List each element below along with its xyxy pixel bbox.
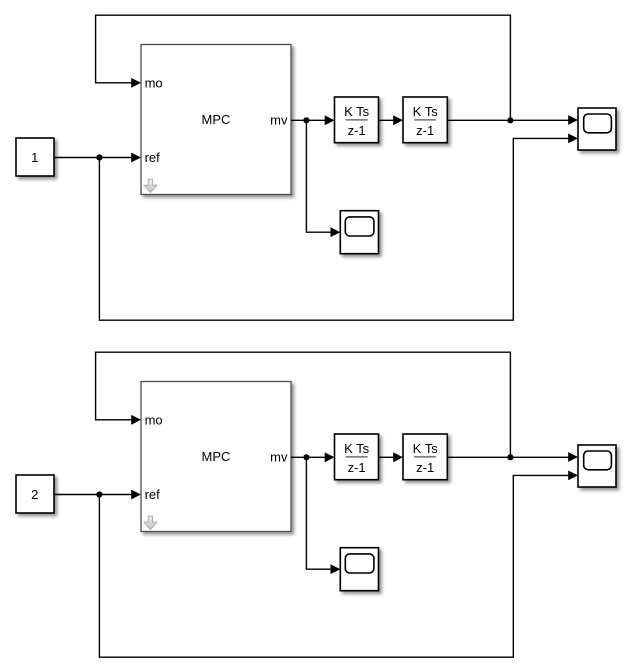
arrowhead into scope2 upper port [568,452,578,462]
wire: ref feedback (down, right, up into scope1 lower port) [99,138,568,320]
svg-text:mo: mo [145,75,163,90]
MPC controller block MPC2 [141,382,291,532]
svg-text:MPC: MPC [202,449,231,464]
MPC controller block MPC1 [141,45,291,195]
svg-text:z-1: z-1 [348,123,366,138]
discrete integrator block 1a (K Ts / z-1) [335,97,379,143]
wire: mo feedback (from output junction up, left, down into mo port) [96,15,511,121]
arrowhead into integrator K Ts/z-1 1a [325,115,335,125]
arrowhead into ref port of MPC1 [131,153,141,163]
arrowhead into mo port of MPC2 [131,415,141,425]
arrowhead into mo port of MPC1 [131,78,141,88]
wire: ref feedback (down, right, up into scope2 lower port) [99,475,568,657]
arrowhead into integrator 2b [393,452,403,462]
wire: integrator 1a to integrator 1b [379,119,395,121]
discrete integrator block 2a (K Ts / z-1) [335,434,379,480]
small scope2 screen icon [345,554,374,573]
output scope block 2o [578,445,616,487]
fraction bar of integrator 1b [414,119,436,121]
svg-text:K Ts: K Ts [413,104,439,119]
svg-text:K Ts: K Ts [413,441,439,456]
arrowhead into ref port of MPC2 [131,490,141,500]
wire: branch from mv junction down to small scope [306,457,331,569]
wire: constant to ref port [54,494,133,496]
svg-text:ref: ref [145,487,161,502]
discrete integrator block 2b (K Ts / z-1) [403,434,447,480]
svg-text:mo: mo [145,412,163,427]
wire: branch from mv junction down to small scope [306,120,331,232]
wire: integrator 1b output to scope1 upper port [447,119,568,121]
svg-text:z-1: z-1 [416,460,434,475]
mask parameter down-arrow icon inside MPC2 [144,516,157,529]
small scope1 screen icon [345,217,374,236]
arrowhead into small scope2 [331,564,341,574]
svg-text:MPC: MPC [202,112,231,127]
wire: integrator 2b output to scope2 upper port [447,456,568,458]
svg-text:2: 2 [31,487,38,502]
arrowhead into scope1 upper port [568,115,578,125]
wire: mo feedback (from output junction up, left, down into mo port) [96,352,511,458]
junction on mv wire [303,117,309,123]
junction on output wire (feedback takeoff) [507,117,513,123]
fraction bar of integrator 2b [414,456,436,458]
svg-text:K Ts: K Ts [344,441,370,456]
svg-text:K Ts: K Ts [344,104,370,119]
wire: integrator 2a to integrator 2b [379,456,395,458]
wire: mv output to integrator [291,456,326,458]
svg-text:z-1: z-1 [348,460,366,475]
svg-text:ref: ref [145,150,161,165]
output scope2 screen icon [584,451,612,470]
svg-text:z-1: z-1 [416,123,434,138]
output scope block 1o [578,108,616,150]
junction on ref wire [96,491,102,497]
constant block 1 [16,138,54,176]
discrete integrator block 1b (K Ts / z-1) [403,97,447,143]
arrowhead into integrator K Ts/z-1 2a [325,452,335,462]
arrowhead into integrator 1b [393,115,403,125]
svg-text:1: 1 [31,150,38,165]
junction on output wire (feedback takeoff) [507,454,513,460]
fraction bar of integrator 1a [346,119,368,121]
wire: constant to ref port [54,157,133,159]
small scope block 2s [340,548,378,591]
junction on ref wire [96,154,102,160]
mask parameter down-arrow icon inside MPC1 [144,179,157,192]
arrowhead into scope1 lower port [568,134,578,144]
fraction bar of integrator 2a [346,456,368,458]
small scope block 1s [340,211,378,254]
arrowhead into scope2 lower port [568,471,578,481]
constant block 2 [16,475,54,513]
junction on mv wire [303,454,309,460]
arrowhead into small scope1 [331,227,341,237]
svg-text:mv: mv [270,113,288,128]
output scope1 screen icon [584,114,612,133]
wire: mv output to integrator [291,119,326,121]
svg-text:mv: mv [270,450,288,465]
